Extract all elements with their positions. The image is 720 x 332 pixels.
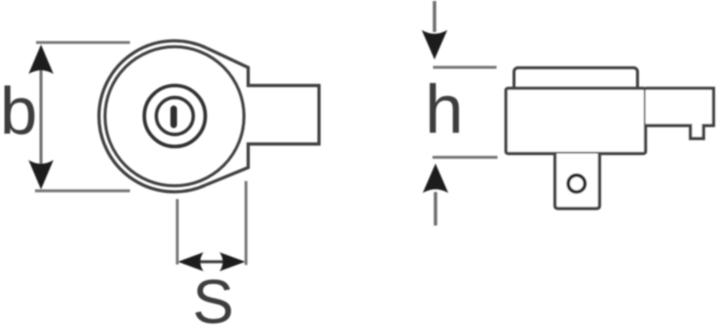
dimension S: extension line left xyxy=(176,199,179,265)
dimension S: extension line right xyxy=(245,181,248,265)
dimension S: arrow shaft xyxy=(198,260,224,263)
dimension h: tick top xyxy=(433,66,497,69)
dimension b: arrow shaft xyxy=(40,58,43,176)
dimension h: upper arrow tail xyxy=(433,1,436,32)
square drive tang xyxy=(555,154,600,209)
dimension S: arrowhead left xyxy=(178,252,204,271)
center slot bar xyxy=(170,109,177,125)
dimension h: lower arrow tail xyxy=(434,192,437,226)
svg-text:S: S xyxy=(193,268,234,332)
dimension b: extension tick bottom xyxy=(35,189,130,192)
side shaft with pin notch xyxy=(646,88,714,138)
head outer circle (cut at tab) xyxy=(99,41,206,192)
dimension b: arrowhead down xyxy=(29,160,54,190)
dimension b: arrowhead up xyxy=(29,45,54,75)
svg-text:h: h xyxy=(425,71,463,148)
dimension h: tick bottom xyxy=(433,156,498,159)
top plate xyxy=(514,68,638,98)
drive ring outer circle xyxy=(144,86,205,147)
dimension b: extension tick top xyxy=(36,41,130,44)
svg-text:b: b xyxy=(0,74,37,149)
drive ring inner circle xyxy=(156,98,193,135)
dimension h: arrowhead down xyxy=(422,30,448,60)
dimension h: arrowhead up xyxy=(423,164,449,194)
tab and square connector outline xyxy=(206,48,319,185)
dimension S: arrowhead right xyxy=(220,252,246,271)
tang pin hole xyxy=(568,175,585,192)
main body xyxy=(506,88,646,153)
head inner circle xyxy=(105,47,244,186)
